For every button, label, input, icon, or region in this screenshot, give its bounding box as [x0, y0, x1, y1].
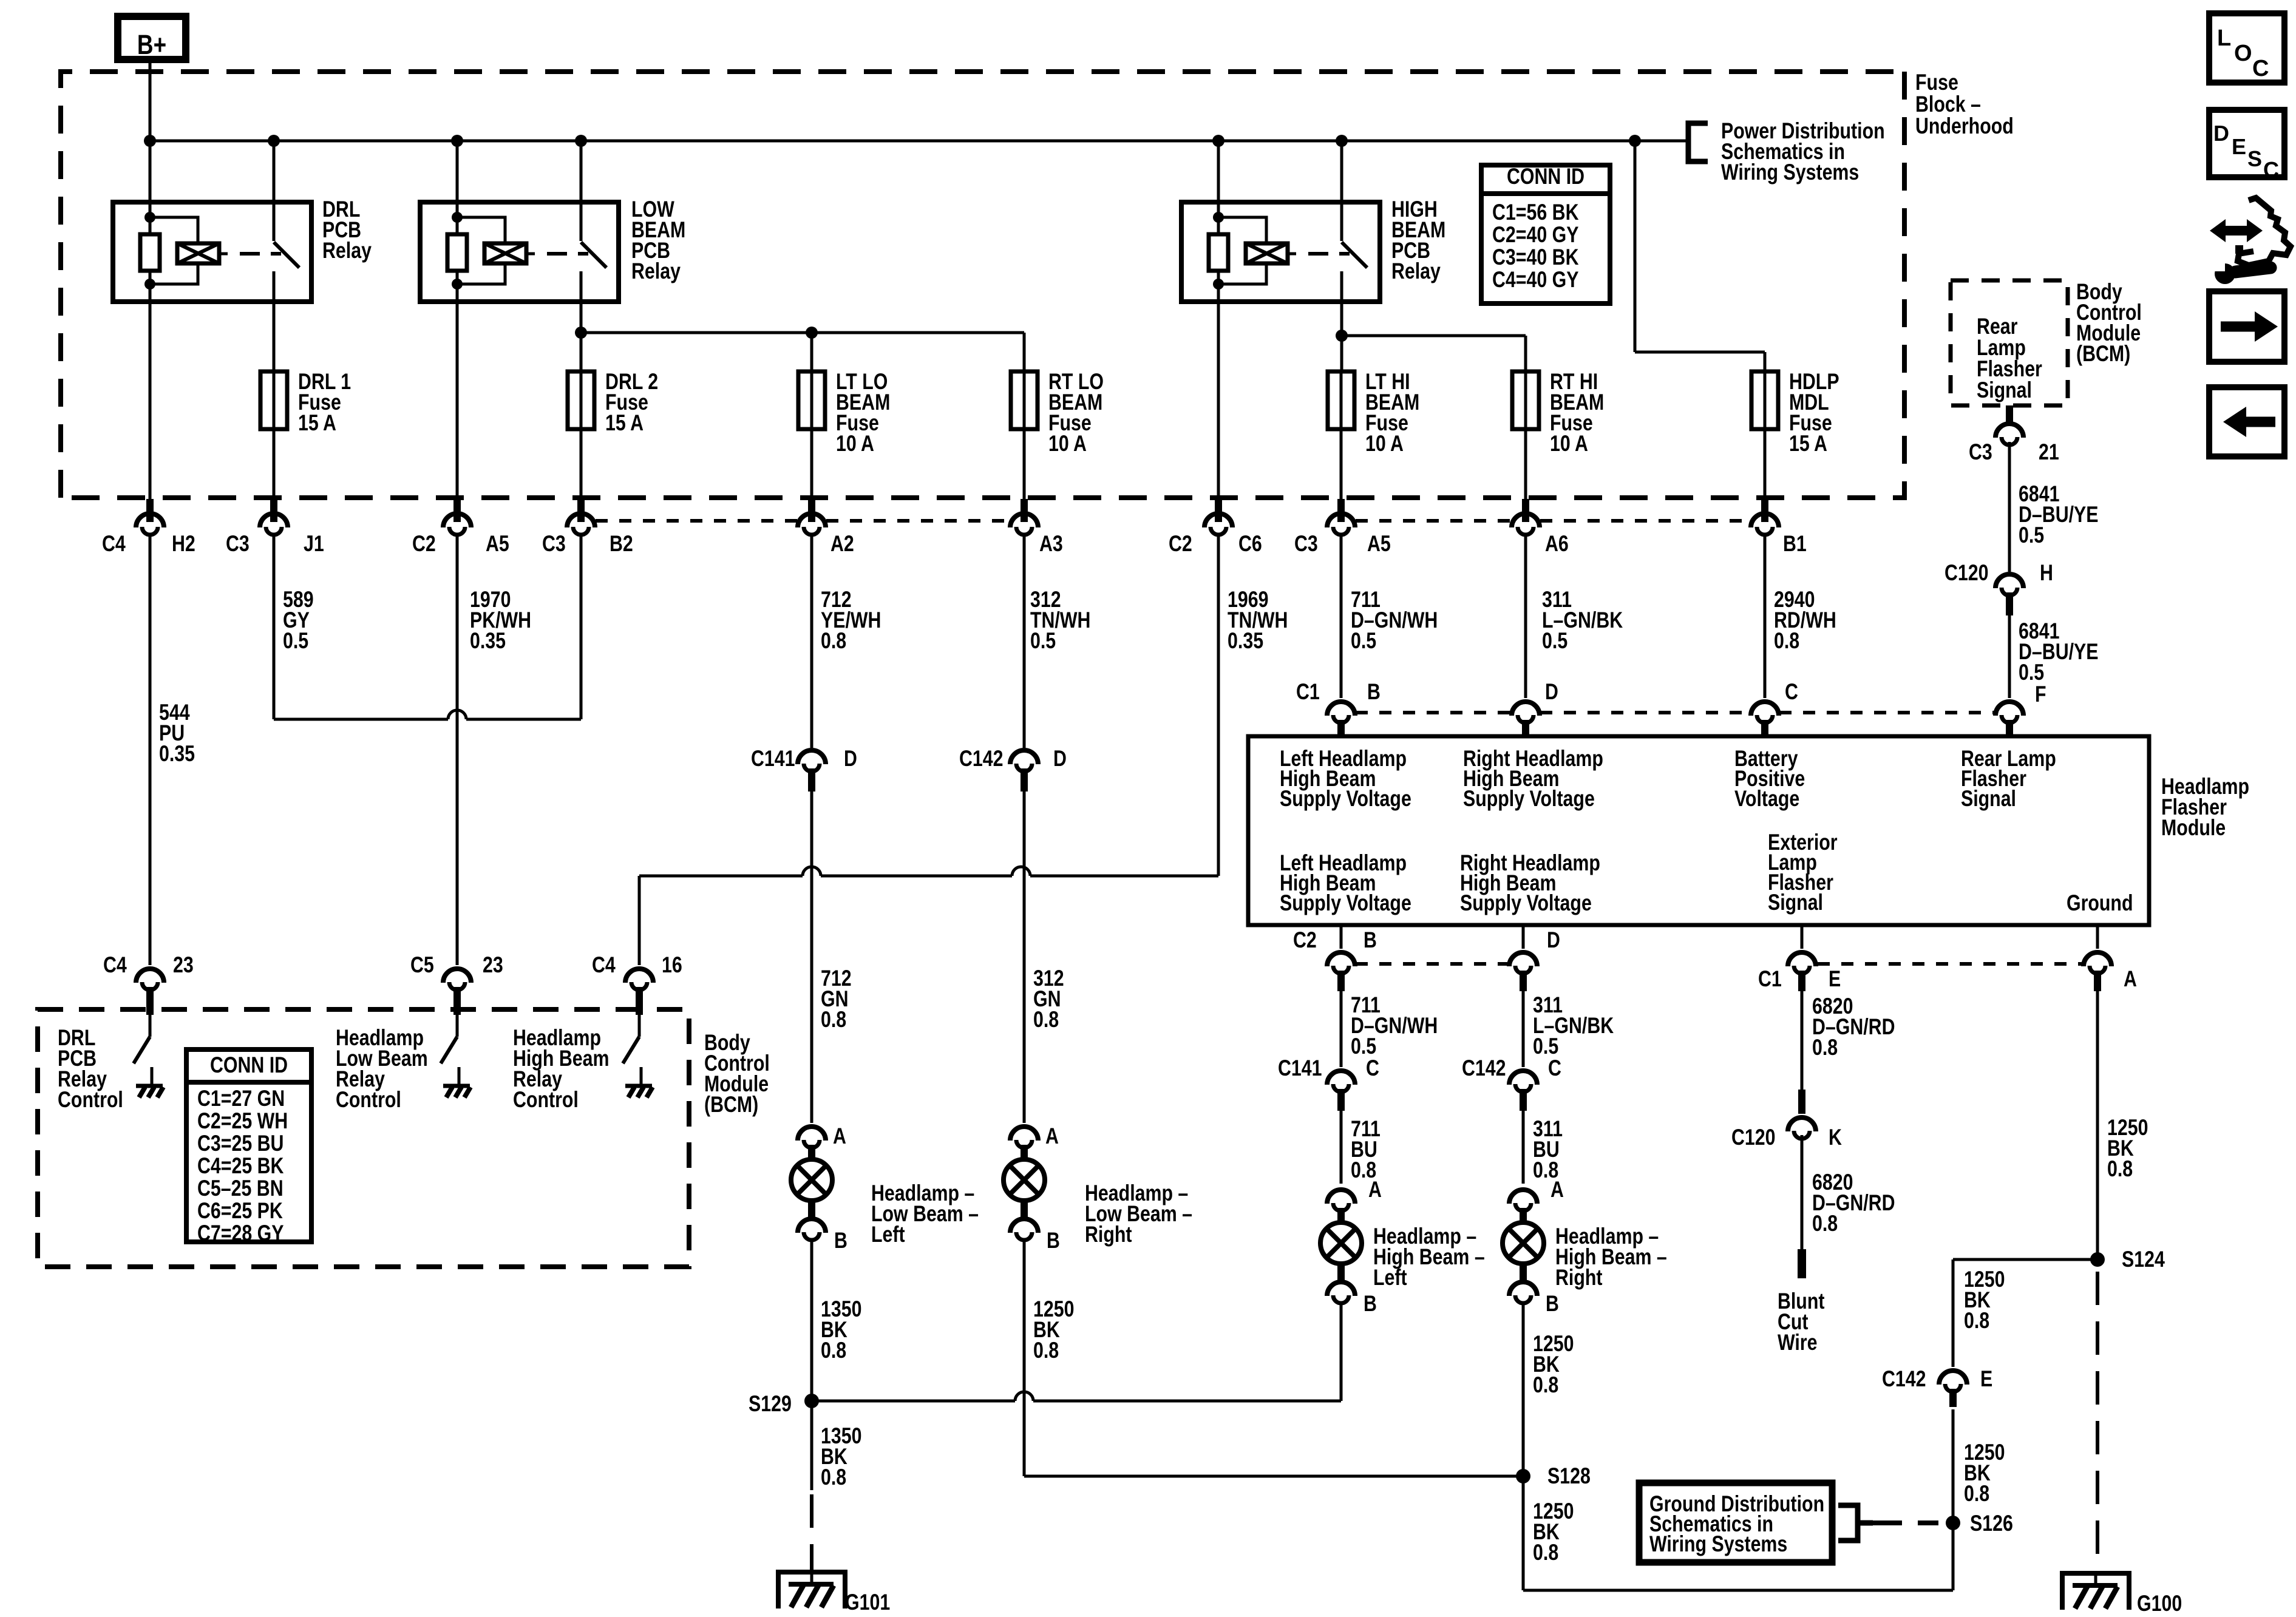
svg-text:21: 21 [2039, 439, 2059, 465]
svg-text:15 A: 15 A [298, 410, 336, 436]
svg-text:C4: C4 [103, 952, 127, 978]
svg-text:C1=56 BK: C1=56 BK [1492, 200, 1579, 225]
svg-text:Right: Right [1085, 1222, 1132, 1247]
svg-text:C5–25 BN: C5–25 BN [197, 1176, 284, 1201]
svg-text:S124: S124 [2122, 1247, 2165, 1272]
svg-text:Ground: Ground [2067, 890, 2133, 916]
svg-text:C4=40 GY: C4=40 GY [1492, 267, 1579, 293]
svg-text:C7=28 GY: C7=28 GY [197, 1221, 284, 1246]
svg-text:A3: A3 [1039, 531, 1063, 557]
svg-text:10 A: 10 A [1550, 431, 1588, 456]
svg-text:D: D [1053, 746, 1067, 771]
svg-text:0.8: 0.8 [1533, 1540, 1558, 1565]
svg-text:Signal: Signal [1768, 890, 1823, 915]
svg-text:A6: A6 [1545, 531, 1569, 557]
svg-text:A: A [1368, 1177, 1382, 1202]
svg-text:0.8: 0.8 [1033, 1007, 1059, 1032]
svg-text:Module: Module [2161, 815, 2226, 841]
svg-text:D: D [1545, 679, 1558, 705]
svg-text:0.8: 0.8 [821, 1007, 846, 1032]
svg-text:E: E [1829, 966, 1841, 992]
svg-text:C: C [2252, 56, 2269, 81]
svg-text:S126: S126 [1970, 1511, 2013, 1536]
svg-text:A2: A2 [830, 531, 854, 557]
svg-text:B: B [1546, 1291, 1559, 1317]
svg-text:0.8: 0.8 [2107, 1156, 2133, 1182]
svg-text:C: C [2263, 157, 2279, 182]
svg-text:D: D [2213, 121, 2229, 146]
svg-text:0.8: 0.8 [1812, 1035, 1838, 1060]
svg-text:A5: A5 [1367, 531, 1391, 557]
svg-text:0.35: 0.35 [1228, 628, 1263, 654]
svg-text:0.35: 0.35 [470, 628, 506, 654]
svg-text:C4=25 BK: C4=25 BK [197, 1153, 284, 1179]
svg-text:C5: C5 [410, 952, 434, 978]
svg-text:S128: S128 [1547, 1463, 1591, 1489]
svg-text:A: A [1045, 1124, 1059, 1149]
svg-text:B1: B1 [1783, 531, 1807, 557]
svg-text:Relay: Relay [1391, 259, 1441, 284]
svg-text:10 A: 10 A [1365, 431, 1404, 456]
svg-text:J1: J1 [304, 531, 324, 557]
svg-text:C2: C2 [1293, 927, 1317, 953]
svg-text:15 A: 15 A [605, 410, 644, 436]
svg-text:Signal: Signal [1961, 786, 2016, 812]
svg-text:Signal: Signal [1977, 378, 2032, 403]
svg-text:Supply Voltage: Supply Voltage [1280, 890, 1411, 916]
svg-text:C142: C142 [959, 746, 1004, 771]
svg-text:C120: C120 [1731, 1125, 1776, 1150]
svg-text:B2: B2 [610, 531, 633, 557]
svg-text:B: B [1367, 679, 1381, 705]
svg-text:C: C [1785, 679, 1798, 705]
svg-text:C3: C3 [226, 531, 250, 557]
svg-text:B: B [1364, 927, 1377, 953]
svg-text:Voltage: Voltage [1734, 786, 1799, 812]
svg-text:S129: S129 [749, 1391, 792, 1417]
svg-text:0.8: 0.8 [821, 1465, 846, 1490]
svg-text:Control: Control [58, 1087, 123, 1113]
svg-text:B: B [834, 1228, 847, 1253]
svg-text:F: F [2035, 682, 2046, 707]
svg-text:C3: C3 [542, 531, 566, 557]
svg-text:G100: G100 [2137, 1591, 2182, 1616]
svg-text:10 A: 10 A [1048, 431, 1087, 456]
svg-text:16: 16 [662, 952, 682, 978]
svg-text:C6: C6 [1238, 531, 1262, 557]
svg-text:C1: C1 [1758, 966, 1782, 992]
svg-text:A: A [1550, 1177, 1564, 1202]
svg-text:Left: Left [871, 1222, 905, 1247]
svg-text:Wire: Wire [1778, 1330, 1817, 1355]
svg-text:Control: Control [336, 1087, 401, 1113]
svg-text:A: A [833, 1124, 846, 1149]
svg-text:Control: Control [513, 1087, 579, 1113]
svg-text:C141: C141 [1278, 1056, 1322, 1081]
svg-text:H2: H2 [172, 531, 195, 557]
svg-text:Relay: Relay [322, 238, 372, 263]
svg-text:C3=25 BU: C3=25 BU [197, 1131, 284, 1156]
svg-text:A: A [2124, 966, 2137, 992]
svg-text:C4: C4 [592, 952, 616, 978]
svg-text:Relay: Relay [631, 259, 681, 284]
svg-text:C141: C141 [751, 746, 795, 771]
svg-text:E: E [1980, 1366, 1992, 1392]
svg-text:0.8: 0.8 [1033, 1338, 1059, 1363]
svg-text:C2=25 WH: C2=25 WH [197, 1108, 288, 1134]
svg-text:(BCM): (BCM) [2076, 341, 2130, 367]
svg-text:0.5: 0.5 [1542, 628, 1567, 654]
svg-text:C142: C142 [1462, 1056, 1506, 1081]
svg-text:C2: C2 [1169, 531, 1192, 557]
svg-text:C6=25 PK: C6=25 PK [197, 1198, 283, 1224]
svg-text:Wiring Systems: Wiring Systems [1649, 1531, 1787, 1557]
svg-text:C4: C4 [102, 531, 126, 557]
svg-text:Underhood: Underhood [1915, 114, 2014, 139]
svg-text:D: D [844, 746, 857, 771]
svg-text:C1: C1 [1296, 679, 1320, 705]
svg-text:CONN ID: CONN ID [210, 1053, 288, 1078]
svg-text:K: K [1829, 1125, 1842, 1150]
svg-text:E: E [2232, 134, 2246, 159]
svg-text:Supply Voltage: Supply Voltage [1280, 786, 1411, 812]
svg-text:0.8: 0.8 [1774, 628, 1799, 654]
svg-text:15 A: 15 A [1789, 431, 1827, 456]
svg-text:0.5: 0.5 [283, 628, 308, 654]
svg-text:B: B [1047, 1228, 1060, 1253]
svg-text:C3: C3 [1969, 439, 1992, 465]
svg-text:C2=40 GY: C2=40 GY [1492, 222, 1579, 248]
svg-text:0.8: 0.8 [1964, 1308, 1989, 1334]
svg-text:0.5: 0.5 [2019, 523, 2044, 548]
svg-text:B: B [1364, 1291, 1377, 1317]
svg-text:10 A: 10 A [836, 431, 874, 456]
svg-text:Supply Voltage: Supply Voltage [1463, 786, 1595, 812]
svg-text:C3: C3 [1294, 531, 1318, 557]
svg-text:O: O [2234, 41, 2252, 66]
svg-text:C120: C120 [1944, 560, 1989, 586]
svg-text:0.8: 0.8 [1533, 1372, 1558, 1398]
svg-text:0.5: 0.5 [1030, 628, 1056, 654]
svg-text:L: L [2217, 25, 2231, 51]
svg-text:C142: C142 [1882, 1366, 1926, 1392]
svg-text:D: D [1547, 927, 1560, 953]
svg-text:(BCM): (BCM) [704, 1092, 758, 1117]
svg-text:23: 23 [173, 952, 194, 978]
svg-text:C: C [1548, 1056, 1561, 1081]
svg-text:G101: G101 [845, 1590, 890, 1615]
svg-text:A5: A5 [486, 531, 509, 557]
svg-text:Right: Right [1555, 1265, 1602, 1290]
svg-text:CONN ID: CONN ID [1507, 164, 1584, 189]
svg-text:0.8: 0.8 [821, 1338, 846, 1363]
svg-text:0.8: 0.8 [1812, 1211, 1838, 1236]
svg-text:Left: Left [1373, 1265, 1407, 1290]
svg-text:0.8: 0.8 [821, 628, 846, 654]
svg-text:C: C [1366, 1056, 1379, 1081]
svg-text:S: S [2247, 146, 2262, 171]
svg-text:C2: C2 [412, 531, 436, 557]
svg-text:B+: B+ [137, 30, 166, 60]
svg-text:0.5: 0.5 [1351, 628, 1376, 654]
svg-text:C1=27 GN: C1=27 GN [197, 1086, 285, 1111]
svg-text:Supply Voltage: Supply Voltage [1460, 890, 1592, 916]
svg-text:23: 23 [483, 952, 503, 978]
svg-text:0.35: 0.35 [159, 741, 195, 767]
svg-text:Wiring Systems: Wiring Systems [1721, 160, 1859, 185]
svg-text:0.5: 0.5 [2019, 660, 2044, 685]
svg-text:C3=40 BK: C3=40 BK [1492, 245, 1579, 270]
svg-text:0.8: 0.8 [1964, 1481, 1989, 1507]
svg-text:H: H [2040, 560, 2053, 586]
